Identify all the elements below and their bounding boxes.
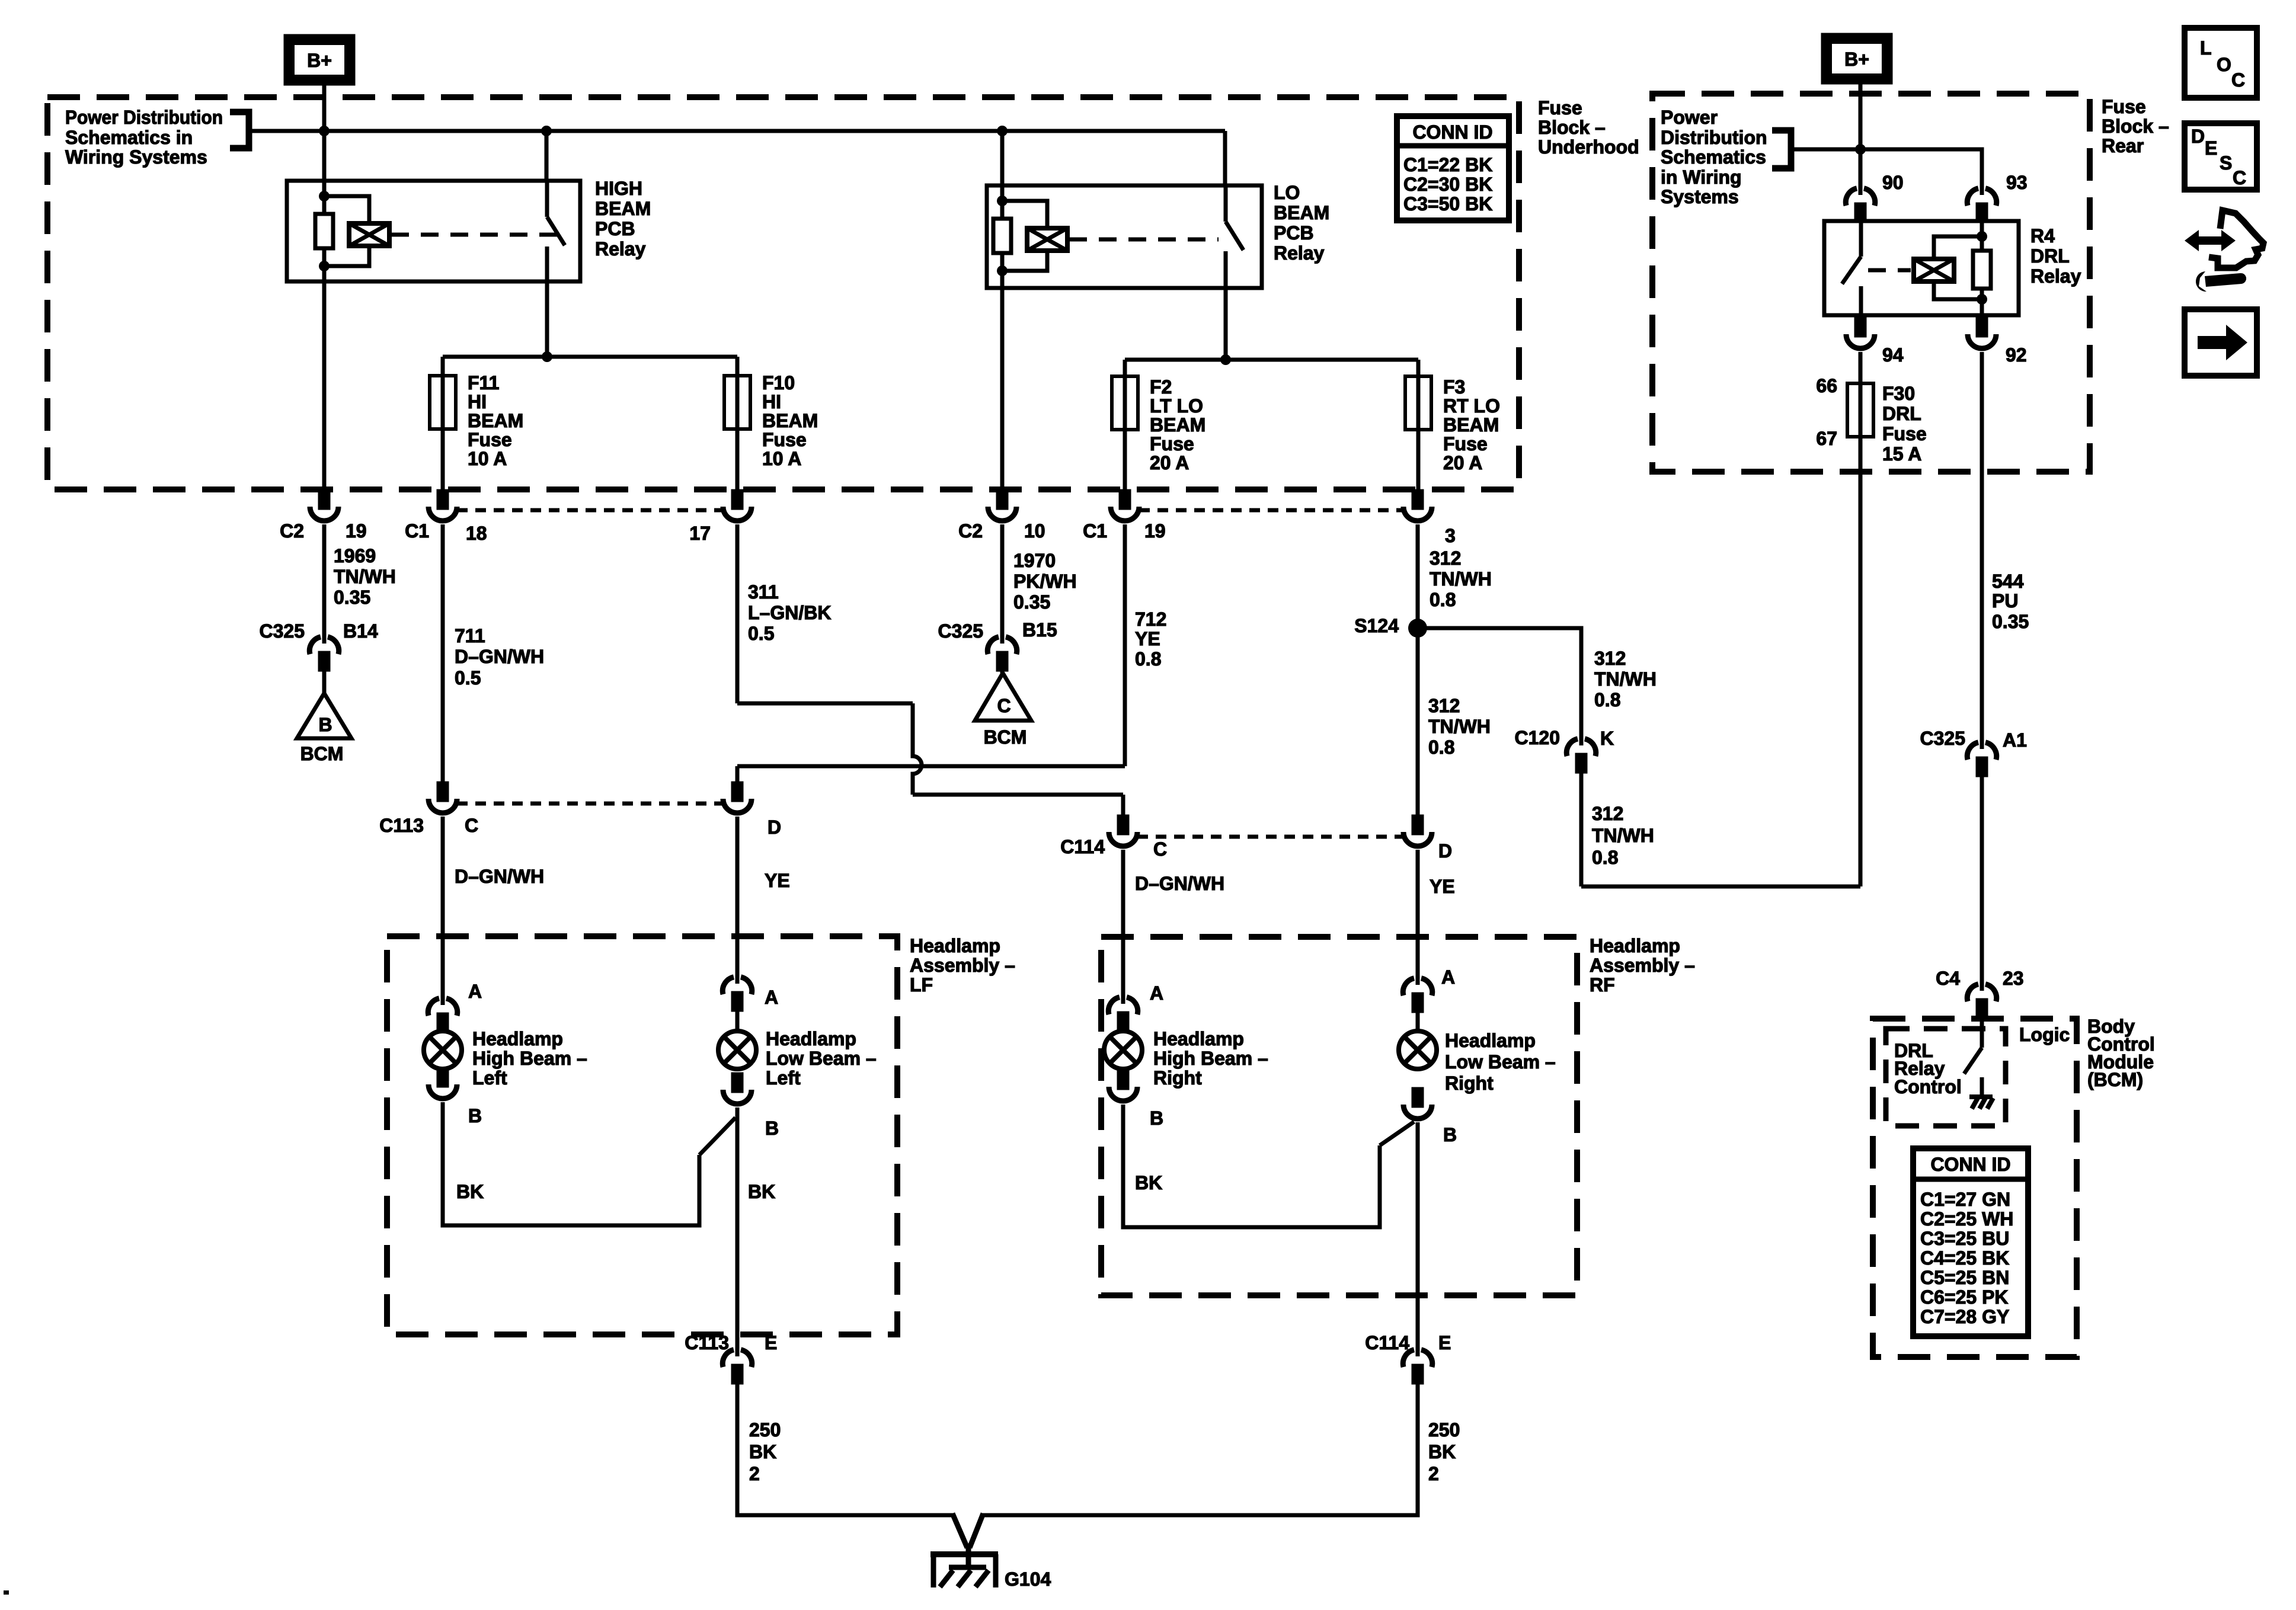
svg-text:C114: C114	[1060, 836, 1105, 857]
svg-text:E: E	[1438, 1332, 1451, 1353]
svg-text:TN/WH: TN/WH	[334, 566, 396, 587]
wire BK high beam right ground run	[1123, 1105, 1380, 1227]
lamp headlamp high beam left	[424, 1031, 462, 1069]
relay K1 HIGH BEAM PCB Relay box	[287, 181, 580, 281]
ground funnel G104	[952, 1513, 983, 1569]
connector C2 pin 19	[310, 491, 338, 521]
node junction lo relay coil feed	[997, 126, 1008, 136]
svg-text:B: B	[468, 1105, 482, 1126]
svg-text:HI: HI	[762, 391, 781, 412]
bracket power distribution left	[230, 112, 249, 148]
svg-text:94: 94	[1882, 344, 1904, 366]
wire pin A to low beam left lamp	[736, 1010, 740, 1032]
connector C325 pin B14	[309, 635, 338, 670]
svg-text:C113: C113	[379, 815, 424, 836]
svg-text:LF: LF	[910, 974, 933, 996]
connector pin A high beam left	[428, 997, 457, 1031]
wire C120 down to F30 return	[1579, 769, 1584, 886]
resistor high relay	[315, 214, 333, 248]
wire 312 TN/WH F30 down	[1859, 437, 1863, 886]
svg-text:250: 250	[1428, 1419, 1460, 1441]
wire feed bus right	[1791, 149, 1982, 188]
wire lo coil loop bottom	[1002, 251, 1047, 271]
wire 311 vertical with hop over YE	[913, 703, 922, 795]
svg-text:2: 2	[1428, 1463, 1439, 1484]
icon wrench head	[2196, 271, 2207, 292]
svg-text:C114: C114	[1365, 1332, 1409, 1353]
wire lo coil to connector C2-10	[1000, 253, 1005, 491]
svg-text:Headlamp: Headlamp	[1590, 935, 1680, 956]
node junction high relay switch feed	[541, 126, 552, 136]
svg-text:F30: F30	[1882, 383, 1915, 404]
svg-text:C2=30 BK: C2=30 BK	[1403, 174, 1492, 195]
battery B+ terminal right	[1823, 35, 1891, 82]
connector C1 dotted line 18-17	[457, 508, 723, 513]
wire to BCM triangle B	[322, 667, 327, 693]
svg-text:F11: F11	[468, 372, 499, 393]
svg-text:Low Beam –: Low Beam –	[766, 1048, 877, 1069]
fuse F3	[1405, 376, 1431, 430]
svg-text:Right: Right	[1153, 1067, 1202, 1089]
wire 250 BK 2 right to ground	[983, 1382, 1418, 1515]
svg-text:544: 544	[1992, 571, 2024, 592]
svg-text:10 A: 10 A	[762, 448, 801, 469]
svg-text:YE: YE	[765, 870, 790, 891]
wire drop to F3	[1416, 360, 1421, 491]
wire 311 L-GN/BK C1-17 down	[736, 524, 740, 703]
svg-text:C1: C1	[1083, 520, 1107, 542]
svg-text:B+: B+	[1844, 49, 1869, 70]
wire S124 branch to C120	[1418, 628, 1581, 738]
connector C114 pin C	[1109, 817, 1137, 846]
fuse block rear dashed box	[1652, 94, 2090, 472]
wire 1969 TN/WH to C325	[322, 524, 327, 636]
svg-text:C1=22 BK: C1=22 BK	[1403, 154, 1492, 175]
wire drop to F10	[736, 357, 740, 491]
svg-text:C: C	[997, 695, 1011, 716]
svg-text:Headlamp: Headlamp	[910, 935, 1000, 956]
svg-text:B+: B+	[307, 50, 332, 71]
svg-text:D–GN/WH: D–GN/WH	[455, 646, 544, 667]
svg-text:LT LO: LT LO	[1150, 395, 1203, 417]
wire B+ right down	[1859, 82, 1863, 188]
svg-text:O: O	[2217, 54, 2231, 75]
wire B+ left down to relay coil	[322, 84, 327, 214]
wire high fuse bus	[443, 355, 737, 359]
svg-text:C3=50 BK: C3=50 BK	[1403, 193, 1492, 215]
node junction B+ bus left	[319, 126, 330, 136]
svg-text:Schematics in: Schematics in	[65, 127, 193, 148]
svg-text:D: D	[1438, 840, 1452, 862]
svg-text:C6=25 PK: C6=25 PK	[1920, 1286, 2009, 1308]
lamp headlamp high beam right	[1104, 1031, 1142, 1069]
svg-text:Fuse: Fuse	[1443, 433, 1488, 454]
svg-text:312: 312	[1592, 803, 1623, 824]
wire lo switch to fuse bus	[1224, 288, 1228, 360]
connector pin B low beam left	[723, 1074, 752, 1104]
svg-text:G104: G104	[1005, 1569, 1051, 1590]
connector C2 pin 10	[988, 491, 1016, 521]
wire to high relay switch	[545, 131, 549, 181]
connector pin B high beam right	[1109, 1071, 1137, 1101]
svg-text:B: B	[318, 714, 332, 735]
svg-text:Fuse: Fuse	[468, 429, 512, 450]
svg-text:PU: PU	[1992, 590, 2018, 612]
svg-text:C4=25 BK: C4=25 BK	[1920, 1247, 2009, 1269]
svg-text:0.8: 0.8	[1592, 847, 1618, 868]
connector C113 pin E	[722, 1348, 752, 1382]
svg-text:A: A	[1441, 966, 1455, 988]
wire 1970 PK/WH to C325	[1000, 524, 1005, 636]
switch DRL relay	[1842, 221, 1861, 315]
svg-text:Block –: Block –	[1538, 117, 1606, 138]
node junction B+ bus right	[1855, 144, 1866, 155]
svg-text:15 A: 15 A	[1882, 443, 1921, 465]
wire to BCM triangle C	[1000, 667, 1005, 673]
wire 311 jog right	[737, 702, 913, 706]
svg-text:0.35: 0.35	[1013, 591, 1050, 613]
svg-text:DRL: DRL	[1882, 403, 1921, 424]
svg-text:BK: BK	[748, 1181, 775, 1202]
connector pin A high beam right	[1108, 996, 1137, 1030]
svg-text:A: A	[765, 987, 778, 1008]
wire BK low beam right to C114-E	[1416, 1122, 1420, 1349]
connector C325 pin A1	[1967, 741, 1996, 775]
DRL relay control logic dashed box	[1886, 1029, 2006, 1126]
svg-text:PCB: PCB	[595, 218, 635, 239]
connector C113 dotted line C-D	[457, 802, 723, 806]
svg-text:Underhood: Underhood	[1538, 136, 1639, 158]
wire F30 return horizontal	[1581, 885, 1860, 889]
svg-text:High Beam –: High Beam –	[1153, 1048, 1268, 1069]
svg-text:C: C	[2231, 69, 2245, 91]
svg-text:0.8: 0.8	[1430, 589, 1456, 610]
wire C4-23 into BCM	[1980, 1014, 1984, 1048]
svg-text:F10: F10	[762, 372, 795, 393]
svg-text:B: B	[1150, 1108, 1163, 1129]
svg-text:F3: F3	[1443, 376, 1465, 398]
switch DRL relay control logic	[1964, 1048, 1982, 1074]
icon wrench	[2205, 273, 2246, 287]
wire BK splice diagonal left	[699, 1118, 736, 1155]
body control module BCM dashed box	[1873, 1019, 2077, 1357]
svg-text:90: 90	[1882, 172, 1904, 193]
wire 544 PU to BCM	[1980, 773, 1984, 984]
wire 712 YE C1-19 down	[1123, 524, 1127, 766]
wire coil parallel loop top	[324, 196, 369, 223]
node junction high fuse bus	[542, 351, 552, 362]
svg-text:B15: B15	[1022, 619, 1057, 641]
svg-text:Systems: Systems	[1661, 186, 1739, 207]
svg-text:C325: C325	[938, 620, 984, 642]
wire pin 94 to F30	[1859, 352, 1863, 438]
svg-text:Relay: Relay	[2030, 265, 2081, 287]
svg-text:Assembly –: Assembly –	[1590, 955, 1695, 976]
svg-text:Wiring Systems: Wiring Systems	[65, 146, 207, 168]
svg-text:C325: C325	[260, 620, 305, 642]
svg-text:F2: F2	[1150, 376, 1172, 398]
bracket power distribution right	[1772, 130, 1791, 168]
wire F2 to connector C1-19	[1123, 430, 1127, 491]
svg-text:B: B	[1443, 1124, 1457, 1145]
svg-text:Fuse: Fuse	[1538, 97, 1582, 119]
svg-text:in Wiring: in Wiring	[1661, 167, 1742, 188]
off-page reference triangle B BCM	[297, 693, 351, 738]
svg-text:311: 311	[748, 581, 779, 603]
connector C1 pin 19	[1111, 491, 1139, 521]
wire DRL coil loop top	[1934, 236, 1982, 259]
svg-text:Power Distribution: Power Distribution	[65, 107, 223, 128]
svg-text:Power: Power	[1661, 107, 1718, 128]
wire logic switch to ground	[1980, 1077, 1984, 1096]
svg-text:BEAM: BEAM	[1274, 202, 1329, 223]
svg-text:Headlamp: Headlamp	[1445, 1030, 1536, 1051]
coil high relay	[349, 223, 389, 246]
wire 250 BK 2 left to ground	[737, 1382, 953, 1515]
svg-text:10: 10	[1024, 520, 1045, 542]
wire 712 jog left	[737, 764, 1125, 769]
node coil bottom junction	[319, 261, 330, 271]
connector C113 pin D	[723, 783, 752, 813]
switch lo relay	[1226, 185, 1243, 288]
connector C1 pin 3	[1403, 491, 1432, 521]
icon double arrow	[2185, 230, 2236, 251]
svg-text:C: C	[1153, 838, 1167, 860]
svg-text:PCB: PCB	[1274, 222, 1314, 244]
svg-text:712: 712	[1135, 609, 1166, 630]
connector pin B low beam right	[1403, 1089, 1432, 1119]
svg-text:19: 19	[346, 520, 367, 542]
wire dashed relay actuation high	[391, 233, 557, 237]
svg-text:Fuse: Fuse	[762, 429, 807, 450]
svg-text:23: 23	[2003, 968, 2024, 989]
icon arrow box	[2185, 309, 2257, 376]
wire to lo relay coil	[1000, 131, 1005, 219]
connector C325 pin B15	[987, 635, 1016, 670]
svg-text:A: A	[1150, 982, 1163, 1004]
wire F10 to connector	[736, 429, 740, 491]
svg-text:C: C	[465, 815, 478, 836]
svg-text:0.8: 0.8	[1594, 689, 1620, 710]
headlamp assembly LF dashed box	[387, 936, 897, 1334]
connector relay pin 93	[1967, 187, 1996, 221]
connector pin B high beam left	[428, 1069, 457, 1099]
svg-text:BEAM: BEAM	[468, 410, 523, 431]
svg-text:TN/WH: TN/WH	[1428, 716, 1491, 737]
connector relay pin 94	[1846, 319, 1875, 348]
wire high coil to connector C2-19	[322, 248, 327, 491]
wire 711 D-GN/WH C1-18 to C113-C	[441, 524, 445, 783]
wire F3 to connector 3	[1416, 430, 1421, 491]
wire BK splice diagonal right	[1380, 1122, 1414, 1145]
svg-text:LO: LO	[1274, 182, 1300, 203]
svg-text:C113: C113	[685, 1332, 729, 1353]
wire C113-D into LF box	[736, 817, 740, 977]
svg-text:CONN ID: CONN ID	[1412, 121, 1492, 143]
node junction lo fuse bus	[1220, 354, 1231, 365]
svg-text:HI: HI	[468, 391, 487, 412]
connector relay pin 90	[1846, 187, 1875, 221]
headlamp assembly RF dashed box	[1101, 937, 1577, 1295]
svg-text:0.35: 0.35	[334, 587, 370, 608]
svg-text:K: K	[1600, 728, 1614, 749]
svg-text:C325: C325	[1920, 728, 1966, 749]
fuse F10	[724, 376, 750, 429]
svg-text:TN/WH: TN/WH	[1592, 825, 1654, 846]
svg-text:C: C	[2233, 167, 2246, 188]
wire drop to F2	[1123, 360, 1127, 491]
wire 544 PU pin 92 down	[1980, 352, 1984, 742]
svg-text:R4: R4	[2030, 225, 2055, 247]
wire 712 drop to C113-D	[736, 766, 740, 783]
svg-text:250: 250	[749, 1419, 781, 1441]
svg-text:BCM: BCM	[300, 743, 344, 764]
svg-text:BK: BK	[456, 1181, 484, 1202]
connector pin A low beam left	[722, 975, 752, 1010]
connector C113 pin C	[428, 783, 457, 813]
svg-text:1970: 1970	[1013, 550, 1056, 571]
svg-text:18: 18	[466, 523, 487, 544]
svg-text:312: 312	[1430, 548, 1461, 569]
fuse F2	[1112, 376, 1138, 430]
ground BCM internal	[1969, 1097, 1993, 1109]
wire dashed relay actuation lo	[1069, 238, 1219, 242]
svg-text:Left: Left	[766, 1067, 801, 1089]
svg-text:10 A: 10 A	[468, 448, 507, 469]
node DRL coil top junction	[1977, 231, 1987, 242]
fuse block underhood dashed box	[47, 97, 1519, 489]
wire lo fuse bus	[1125, 358, 1418, 362]
wire dashed relay actuation DRL	[1868, 268, 1911, 273]
svg-text:BK: BK	[1428, 1441, 1456, 1462]
svg-text:D–GN/WH: D–GN/WH	[1135, 873, 1224, 894]
connector C1 pin 17	[723, 491, 752, 521]
coil lo relay	[1027, 228, 1067, 251]
svg-text:L–GN/BK: L–GN/BK	[748, 602, 831, 623]
svg-text:Headlamp: Headlamp	[472, 1028, 563, 1049]
lamp headlamp low beam right	[1399, 1031, 1437, 1069]
svg-text:Logic: Logic	[2019, 1024, 2070, 1045]
svg-text:Headlamp: Headlamp	[1153, 1028, 1244, 1049]
svg-text:C2=25 WH: C2=25 WH	[1920, 1208, 2013, 1230]
wire feed bus left	[249, 129, 1225, 133]
svg-text:1969: 1969	[334, 545, 376, 566]
svg-text:BEAM: BEAM	[1150, 414, 1205, 436]
svg-text:Schematics: Schematics	[1661, 146, 1766, 168]
node lo coil top junction	[997, 196, 1008, 206]
svg-text:C4: C4	[1936, 968, 1960, 989]
connector C114 pin D	[1403, 817, 1432, 846]
svg-text:B14: B14	[343, 620, 378, 642]
resistor DRL relay	[1973, 251, 1991, 289]
wire BK high beam left ground run	[443, 1102, 699, 1225]
svg-text:BK: BK	[749, 1441, 776, 1462]
svg-text:(BCM): (BCM)	[2087, 1069, 2143, 1090]
svg-text:YE: YE	[1135, 628, 1160, 649]
svg-text:Fuse: Fuse	[1150, 433, 1194, 454]
svg-text:66: 66	[1816, 375, 1837, 396]
svg-text:C120: C120	[1515, 727, 1560, 748]
connector C1 dotted line 19-3	[1139, 508, 1403, 513]
svg-text:Left: Left	[472, 1067, 507, 1089]
svg-text:CONN ID: CONN ID	[1930, 1154, 2010, 1175]
wire F11 to connector	[441, 429, 445, 491]
switch high relay	[547, 181, 565, 281]
svg-text:C1: C1	[405, 520, 429, 542]
wire C114-D into RF box	[1416, 850, 1420, 978]
wire lo coil loop top	[1002, 201, 1047, 228]
wire DRL coil loop bottom	[1934, 281, 1982, 299]
svg-text:C5=25 BN: C5=25 BN	[1920, 1267, 2009, 1288]
node DRL coil bottom junction	[1977, 294, 1987, 305]
wire C113-C into LF box	[441, 817, 445, 998]
connector table CONN ID BCM	[1913, 1148, 2028, 1336]
svg-text:PK/WH: PK/WH	[1013, 571, 1077, 592]
ground symbol G104	[930, 1554, 998, 1587]
svg-text:TN/WH: TN/WH	[1594, 668, 1657, 690]
svg-text:0.35: 0.35	[1992, 611, 2029, 632]
resistor lo relay	[993, 219, 1011, 253]
svg-text:Low Beam –: Low Beam –	[1445, 1051, 1556, 1073]
coil DRL relay	[1914, 259, 1954, 281]
wire 312 TN/WH pin3 to C114-D	[1416, 524, 1420, 817]
svg-text:312: 312	[1428, 695, 1460, 716]
svg-text:D: D	[768, 817, 781, 838]
svg-text:BEAM: BEAM	[595, 198, 651, 219]
svg-text:YE: YE	[1430, 876, 1455, 897]
svg-text:Relay: Relay	[595, 238, 646, 260]
svg-text:TN/WH: TN/WH	[1430, 568, 1492, 590]
connector relay pin 92	[1968, 319, 1996, 348]
node lo coil bottom junction	[997, 265, 1008, 276]
svg-text:C2: C2	[280, 520, 304, 542]
fuse F11	[430, 376, 456, 429]
svg-text:DRL: DRL	[2030, 245, 2070, 267]
svg-text:C2: C2	[958, 520, 983, 542]
icon animal head outline	[2209, 210, 2263, 268]
svg-text:E: E	[2205, 137, 2217, 159]
splice S124	[1408, 619, 1427, 638]
svg-text:Relay: Relay	[1274, 242, 1325, 264]
svg-text:D: D	[2191, 126, 2205, 147]
wire high switch to fuse bus	[545, 281, 549, 357]
svg-text:20 A: 20 A	[1443, 452, 1482, 473]
svg-text:BCM: BCM	[984, 726, 1027, 748]
svg-text:C3=25 BU: C3=25 BU	[1920, 1228, 2009, 1249]
svg-text:D–GN/WH: D–GN/WH	[455, 866, 544, 887]
svg-text:S124: S124	[1354, 615, 1399, 636]
connector pin A low beam right	[1403, 977, 1432, 1011]
wire drop to F11	[441, 357, 445, 491]
svg-text:Block –: Block –	[2102, 116, 2169, 137]
icon LOC box	[2185, 28, 2257, 98]
svg-text:A1: A1	[2003, 729, 2027, 751]
svg-text:L: L	[2200, 37, 2212, 59]
svg-text:A: A	[468, 981, 482, 1002]
svg-text:Fuse: Fuse	[2102, 96, 2146, 117]
svg-text:711: 711	[455, 625, 485, 646]
decorative period bottom left	[4, 1590, 9, 1595]
connector C120 pin K	[1566, 737, 1595, 772]
svg-text:C1=27 GN: C1=27 GN	[1920, 1189, 2010, 1210]
battery B+ terminal left	[286, 36, 353, 84]
svg-text:Headlamp: Headlamp	[766, 1028, 856, 1049]
svg-text:93: 93	[2006, 172, 2028, 193]
relay R4 DRL Relay box	[1824, 221, 2019, 315]
wire coil parallel loop bottom	[324, 246, 369, 266]
connector C114 pin E	[1403, 1348, 1432, 1382]
svg-text:Assembly –: Assembly –	[910, 955, 1015, 976]
